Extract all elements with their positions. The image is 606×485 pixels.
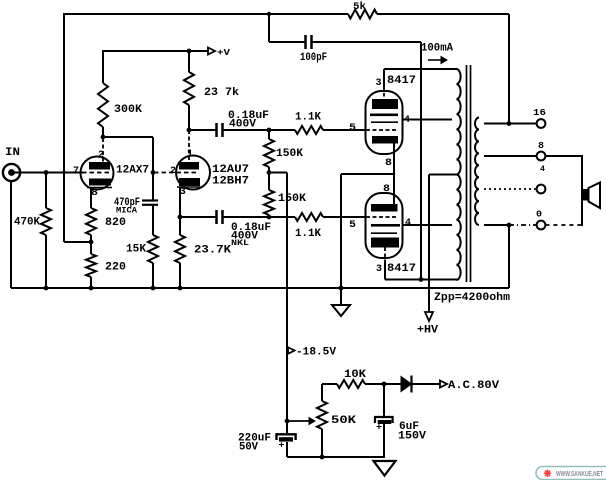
wire 12AX7 cathode lead bbox=[90, 188, 92, 208]
node upper coupling junction bbox=[267, 128, 272, 133]
svg-text:10K: 10K bbox=[344, 369, 366, 381]
label +HV arrow bbox=[425, 312, 433, 321]
wire cathode link both tubes bbox=[393, 144, 395, 205]
svg-text:23.7K: 23.7K bbox=[194, 245, 231, 257]
svg-text:8417: 8417 bbox=[387, 263, 416, 275]
resistor 1.1K lower grid stopper bbox=[295, 213, 323, 221]
svg-text:+V: +V bbox=[217, 48, 231, 58]
svg-text:8: 8 bbox=[91, 188, 98, 199]
node bus 470K bbox=[44, 286, 49, 291]
svg-text:7: 7 bbox=[73, 166, 79, 177]
svg-text:16: 16 bbox=[533, 108, 546, 118]
capacitor 220uF 50V bbox=[277, 434, 296, 440]
wire vertical 100pF to lower plate bbox=[420, 42, 422, 280]
wire 8 ohm tap bbox=[484, 155, 537, 157]
wire cathode horizontal bbox=[341, 173, 394, 175]
wire bias bottom line bbox=[287, 456, 384, 458]
node 0 tap ground bbox=[507, 223, 512, 228]
svg-text:+: + bbox=[279, 441, 285, 451]
terminal 8 ohm bbox=[537, 152, 546, 161]
node 100pF to lower plate bbox=[419, 277, 424, 282]
12AU7 cathode bar bbox=[179, 178, 200, 186]
svg-text:8: 8 bbox=[383, 184, 390, 195]
wire +HV to primary center tap bbox=[429, 174, 457, 176]
wire feedback right vertical to 16 ohm tap bbox=[508, 14, 510, 124]
8417 upper suppressor line bbox=[371, 121, 398, 123]
wire 0 ohm tap bbox=[484, 224, 509, 226]
wire 470pF to 15K bbox=[152, 205, 154, 235]
node 50K bottom bbox=[320, 455, 325, 460]
capacitor 0.18uF 400V upper bbox=[215, 123, 218, 137]
wire diode node to 6uF bbox=[383, 384, 385, 417]
8417 lower plate bar bbox=[371, 238, 399, 248]
svg-text:+HV: +HV bbox=[417, 325, 438, 337]
node feedback takeoff 16 ohm bbox=[507, 121, 512, 126]
wire 4 ohm tap dotted bbox=[484, 188, 537, 190]
diode bbox=[401, 377, 412, 392]
wire cathode to lower cap bbox=[180, 216, 217, 218]
wire 23.7k top lead bbox=[188, 51, 190, 72]
12AX7 grid dashes bbox=[82, 172, 111, 174]
node 12AX7 plate junction bbox=[101, 135, 106, 140]
wire upper plate to primary top bbox=[384, 68, 457, 70]
8417 lower suppressor line bbox=[371, 232, 397, 234]
svg-text:150V: 150V bbox=[398, 431, 426, 443]
12AU7 plate lead pin 1 bbox=[188, 130, 190, 162]
svg-text:2: 2 bbox=[170, 166, 176, 177]
svg-text:Zpp=4200ohm: Zpp=4200ohm bbox=[434, 292, 510, 304]
12AU7 plate bar bbox=[179, 162, 199, 170]
wire upper screen pin 4 to primary tap bbox=[403, 119, 453, 121]
resistor 220 cathode bbox=[86, 254, 96, 277]
8417 upper plate bar bbox=[372, 99, 398, 109]
tube 8417 upper envelope bbox=[366, 91, 403, 154]
resistor 23.7K cathode load bbox=[175, 235, 185, 263]
label -18.5V arrow bbox=[288, 347, 295, 354]
resistor 1.1K upper grid stopper bbox=[295, 126, 323, 134]
ground symbol bias bbox=[374, 461, 396, 476]
wire divider middle bbox=[268, 167, 270, 190]
wire cathode to 23.7K load bbox=[179, 217, 181, 235]
wire speaker vertical bbox=[581, 155, 583, 226]
svg-text:1.1K: 1.1K bbox=[295, 228, 321, 240]
wire to 100pF bbox=[269, 41, 306, 43]
node junction 5k left bbox=[267, 12, 271, 16]
label A.C.80V arrow bbox=[440, 381, 447, 388]
svg-text:15K: 15K bbox=[126, 244, 146, 256]
capacitor 6uF 150V bbox=[375, 417, 393, 423]
node grid column bbox=[151, 170, 156, 175]
svg-text:220: 220 bbox=[105, 262, 126, 274]
svg-text:50V: 50V bbox=[239, 442, 258, 454]
wire cathode down to ground bus bbox=[340, 174, 342, 288]
svg-text:100pF: 100pF bbox=[300, 52, 327, 64]
svg-text:5: 5 bbox=[349, 123, 356, 134]
tube 8417 lower envelope bbox=[366, 193, 403, 258]
svg-text:23 7k: 23 7k bbox=[204, 87, 239, 99]
svg-text:WWW.SANKUE.NET: WWW.SANKUE.NET bbox=[556, 471, 604, 478]
8417 upper screen bar bbox=[370, 114, 398, 117]
8417 lower cathode bar bbox=[371, 204, 398, 212]
node +V to 23.7k bbox=[187, 49, 192, 54]
capacitor 470pF MICA bbox=[142, 199, 158, 201]
wire grid column vertical bbox=[152, 137, 154, 200]
svg-text:4: 4 bbox=[540, 165, 545, 174]
wire +V rail bbox=[103, 50, 208, 52]
resistor 10K bbox=[322, 383, 337, 385]
wire feedback left vertical bbox=[63, 13, 65, 242]
wire 1.1K to grid pin 5 bbox=[323, 129, 366, 131]
8417 upper cathode bar bbox=[372, 136, 398, 144]
wire jack ground lead bbox=[10, 181, 12, 288]
svg-text:3: 3 bbox=[376, 78, 382, 89]
wire to diode bbox=[384, 383, 401, 385]
wire 12AU7 cathode lead bbox=[179, 188, 181, 218]
resistor 470K input load bbox=[45, 173, 47, 209]
connector IN jack bbox=[3, 164, 20, 181]
node cathode ground bbox=[339, 286, 344, 291]
8417 upper grid dashes bbox=[366, 129, 398, 131]
label +V arrow bbox=[208, 48, 215, 55]
svg-text:12BH7: 12BH7 bbox=[212, 176, 249, 188]
svg-text:820: 820 bbox=[105, 217, 126, 229]
svg-text:3: 3 bbox=[376, 264, 382, 275]
wire 100pF to HV line bbox=[312, 41, 422, 43]
svg-text:300K: 300K bbox=[114, 104, 142, 116]
svg-text:2: 2 bbox=[98, 150, 104, 161]
svg-text:IN: IN bbox=[5, 147, 20, 159]
node 12AU7 cathode junction bbox=[178, 215, 183, 220]
wire plate to coupling cap bbox=[189, 129, 217, 131]
svg-text:150K: 150K bbox=[276, 148, 303, 160]
terminal 0 ohm bbox=[537, 221, 546, 230]
wire feedback top right segment bbox=[377, 13, 509, 15]
svg-text:4: 4 bbox=[405, 218, 411, 229]
wire ground bus bbox=[11, 287, 509, 289]
node wiper takeoff bbox=[285, 419, 290, 424]
tube 12AX7 envelope bbox=[81, 157, 114, 190]
svg-text:400V: 400V bbox=[229, 119, 256, 131]
transformer core bbox=[466, 65, 468, 282]
capacitor 100pF bbox=[304, 35, 307, 49]
svg-text:8: 8 bbox=[385, 158, 392, 169]
svg-text:470K: 470K bbox=[14, 217, 40, 229]
resistor 5k feedback bbox=[348, 10, 377, 19]
wire 0 tap to speaker return dashed bbox=[545, 224, 582, 226]
wire lower plate to primary bottom bbox=[385, 279, 457, 281]
svg-text:1: 1 bbox=[187, 149, 193, 160]
terminal 4 ohm bbox=[537, 185, 546, 194]
8417 upper plate lead pin 3 bbox=[383, 69, 385, 87]
svg-text:8: 8 bbox=[538, 141, 544, 151]
speaker bbox=[582, 189, 589, 201]
wire 100pF branch drop bbox=[268, 14, 270, 42]
wire cap to junction bbox=[223, 129, 296, 131]
capacitor 0.18uF 400V lower bbox=[215, 210, 218, 224]
wire bias line vertical bbox=[286, 173, 288, 434]
wire 6uF to bottom line bbox=[383, 424, 385, 458]
node lower coupling junction bbox=[267, 215, 272, 220]
wire 23.7k bottom lead bbox=[188, 105, 190, 130]
wire 1.1K to grid pin 5 lower bbox=[323, 216, 366, 218]
wire 300K bottom lead bbox=[102, 127, 104, 138]
wire lower cap to junction bbox=[223, 216, 296, 218]
tube 12AU7 envelope bbox=[176, 156, 210, 190]
resistor 820 cathode bbox=[86, 208, 96, 235]
8417 lower grid dashes bbox=[366, 216, 398, 218]
svg-text:1.1K: 1.1K bbox=[295, 112, 321, 124]
node divider center tap bbox=[267, 170, 272, 175]
node bus 23.7K bbox=[178, 286, 183, 291]
transformer secondary winding bbox=[475, 118, 479, 226]
12AU7 grid dashes bbox=[154, 172, 199, 174]
12AX7 plate lead pin 2 bbox=[102, 138, 104, 162]
watermark bbox=[536, 467, 606, 480]
wire 16 ohm tap bbox=[484, 123, 537, 125]
svg-text:5: 5 bbox=[349, 220, 356, 231]
wire lower screen pin 4 to primary tap bbox=[403, 224, 453, 226]
wire 8 ohm to speaker bbox=[545, 155, 582, 157]
wire 0 tap down to ground bus bbox=[508, 225, 510, 288]
svg-text:50K: 50K bbox=[331, 415, 356, 427]
svg-text:A.C.80V: A.C.80V bbox=[448, 380, 499, 392]
8417 lower screen bar bbox=[371, 224, 400, 227]
potentiometer 50K bbox=[321, 384, 323, 401]
svg-text:8417: 8417 bbox=[387, 75, 416, 87]
svg-text:NKL: NKL bbox=[231, 239, 249, 248]
svg-text:MICA: MICA bbox=[116, 207, 137, 216]
8417 lower plate lead pin 3 bbox=[384, 248, 386, 263]
wire feedback bottom to cathode bbox=[64, 241, 91, 243]
resistor 150K lower bbox=[264, 190, 274, 215]
node bus 220 bbox=[89, 286, 94, 291]
resistor 150K upper bbox=[268, 130, 270, 139]
wire input to grid bbox=[13, 172, 83, 174]
resistor 300K bbox=[98, 83, 108, 127]
svg-text:0: 0 bbox=[536, 210, 542, 220]
svg-text:12AX7: 12AX7 bbox=[116, 165, 149, 177]
wire wiper arrow bbox=[287, 420, 309, 422]
resistor 23.7k bbox=[184, 72, 194, 105]
node feedback injection bbox=[89, 240, 94, 245]
svg-text:5k: 5k bbox=[353, 1, 366, 13]
terminal 16 ohm bbox=[537, 119, 546, 128]
node bus 15K bbox=[151, 286, 156, 291]
wire 820 to 220 bbox=[90, 235, 92, 254]
ground symbol center bbox=[340, 288, 342, 305]
transformer primary winding bbox=[457, 69, 461, 280]
wire 300K top lead bbox=[102, 50, 104, 83]
svg-text:150K: 150K bbox=[278, 193, 306, 205]
wire feedback top left segment bbox=[64, 13, 348, 15]
12AX7 cathode bar bbox=[89, 179, 111, 186]
wire center tap to bias line bbox=[269, 172, 287, 174]
node diode junction bbox=[382, 382, 387, 387]
12AX7 plate bar bbox=[89, 162, 110, 170]
wire 220uF to bottom line bbox=[286, 442, 288, 457]
node 12AU7 plate junction bbox=[187, 128, 192, 133]
wire plate node to grid column bbox=[103, 136, 153, 138]
node input to 470K bbox=[44, 170, 49, 175]
svg-text:+: + bbox=[376, 423, 382, 433]
svg-text:12AU7: 12AU7 bbox=[212, 164, 249, 176]
svg-text:100mA: 100mA bbox=[421, 43, 453, 55]
resistor 15K bbox=[148, 235, 158, 263]
wire diode to AC bbox=[412, 383, 441, 385]
svg-text:-18.5V: -18.5V bbox=[296, 347, 336, 359]
